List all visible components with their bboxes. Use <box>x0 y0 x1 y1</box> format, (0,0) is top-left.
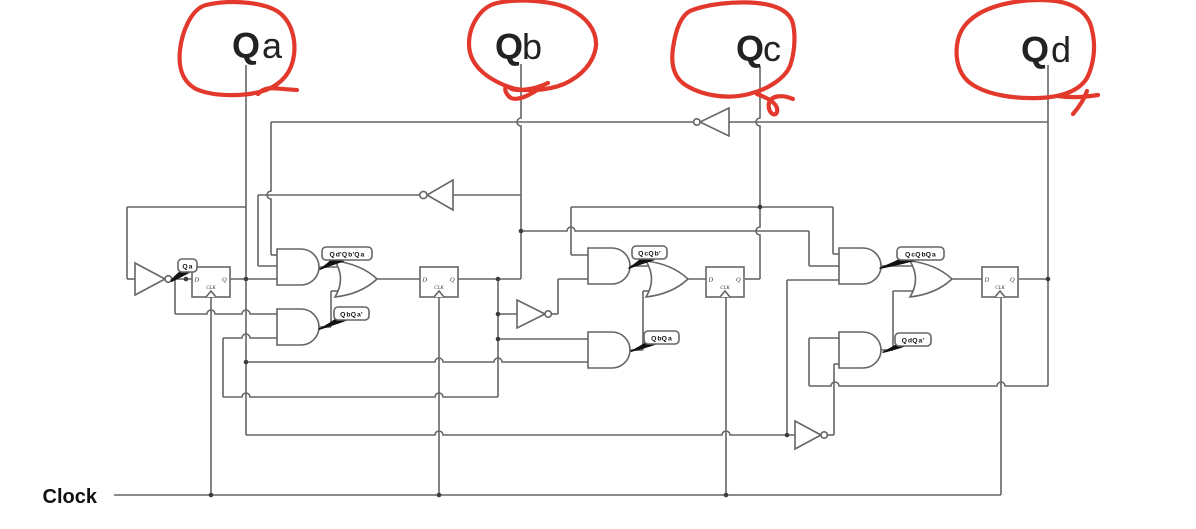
svg-text:Q dQ a': Q dQ a' <box>902 338 925 345</box>
svg-text:Q: Q <box>222 277 227 284</box>
svg-text:D: D <box>422 277 428 284</box>
svg-text:Q: Q <box>736 277 741 284</box>
svg-text:D: D <box>984 277 990 284</box>
svg-text:D: D <box>708 277 714 284</box>
svg-text:Q cQ b': Q cQ b' <box>638 251 661 258</box>
svg-text:Q bQ a: Q bQ a <box>651 336 672 343</box>
svg-text:Q: Q <box>1021 29 1049 70</box>
svg-text:Q bQ a': Q bQ a' <box>340 312 363 319</box>
svg-text:Q cQ bQ a: Q cQ bQ a <box>905 252 936 259</box>
svg-text:Q: Q <box>495 26 523 67</box>
svg-text:Clock: Clock <box>43 486 98 508</box>
svg-text:a: a <box>262 25 283 66</box>
svg-text:Q: Q <box>736 28 764 69</box>
svg-text:Q a: Q a <box>182 264 192 271</box>
svg-text:b: b <box>522 26 542 67</box>
svg-text:Q d'Q b'Q a: Q d'Q b'Q a <box>329 252 364 259</box>
svg-text:Q: Q <box>232 25 260 66</box>
svg-text:c: c <box>763 28 781 69</box>
svg-text:d: d <box>1051 29 1071 70</box>
svg-text:Q: Q <box>450 277 455 284</box>
svg-text:Q: Q <box>1010 277 1015 284</box>
svg-text:D: D <box>194 277 200 284</box>
